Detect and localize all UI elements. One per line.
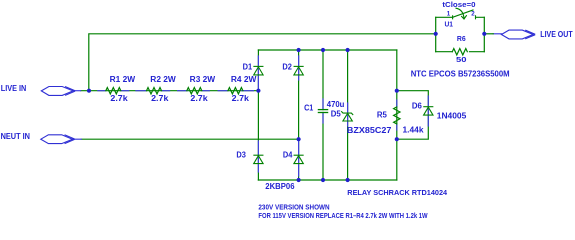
zener diode D5 [342,112,353,121]
svg-text:U1: U1 [445,19,454,28]
wire blue pin segments on live row [73,90,253,92]
junction top rail C1 [321,48,325,52]
wire C1 column [322,50,324,110]
resistor R3 [187,88,202,94]
svg-text:1: 1 [447,11,451,18]
svg-text:1.44k: 1.44k [403,126,425,135]
svg-text:NTC EPCOS B57236S500M: NTC EPCOS B57236S500M [411,70,510,79]
junction top rail D2 [297,48,301,52]
svg-text:50: 50 [456,57,467,64]
svg-text:R1 2W: R1 2W [110,75,136,84]
svg-text:470u: 470u [327,100,345,109]
switch U1 [436,8,485,19]
svg-text:C1: C1 [304,103,314,112]
wire D1/D3 column [257,50,259,180]
resistor R2 [147,88,162,94]
junction top rail D5 [346,48,350,52]
wire from loop to output connector [484,33,493,35]
wire top horizontal from live-in junction to switch loop [89,34,436,91]
svg-text:R5: R5 [377,111,388,120]
svg-text:D1: D1 [243,63,253,72]
svg-text:R4 2W: R4 2W [231,75,257,84]
resistor R1 [106,88,121,94]
junction bottom rail C1 [321,178,325,182]
svg-text:2.7k: 2.7k [190,94,208,103]
wire blue pin segments on vertical columns [258,34,501,176]
wire D2/D4 column [298,50,300,180]
resistor R4 [228,88,243,94]
junction bridge live node [256,89,260,93]
diode D4 [294,155,303,163]
svg-text:1N4005: 1N4005 [437,112,467,121]
junction bottom rail D5 [346,178,350,182]
diode D3 [254,155,263,163]
svg-text:BZX85C27: BZX85C27 [347,126,392,135]
port LIVE OUT connector [501,30,534,39]
svg-text:D6: D6 [412,101,423,110]
junction switch loop left [434,32,438,36]
diode D1 [254,66,263,75]
capacitor C1 [318,110,327,113]
wire switch/R6 loop [435,17,437,51]
port NEUT IN connector [41,135,74,144]
svg-text:230V VERSION SHOWN: 230V VERSION SHOWN [258,205,329,212]
svg-text:R6: R6 [457,36,466,43]
svg-text:D5: D5 [331,110,342,119]
svg-text:D2: D2 [282,63,292,72]
diode D2 [294,66,303,75]
svg-text:tClose=0: tClose=0 [442,2,475,9]
wire bottom rail of bridge [258,179,396,181]
svg-text:2.7k: 2.7k [110,94,128,103]
svg-text:NEUT IN: NEUT IN [1,132,31,141]
junction bottom rail D4 [297,178,301,182]
junction relay coil top [395,89,399,93]
port LIVE IN connector [41,87,74,96]
wire D6 loop [397,91,429,140]
wire live row from junction to bridge [81,90,259,92]
svg-text:R3 2W: R3 2W [190,75,216,84]
wire neutral row [81,138,298,140]
svg-text:D3: D3 [236,151,246,160]
junction relay coil bottom [395,137,399,141]
wire D5 column [347,50,349,180]
svg-text:R2 2W: R2 2W [150,75,176,84]
resistor R5 (relay coil) [394,107,400,124]
svg-text:2.7k: 2.7k [151,94,169,103]
wire relay coil column with corners [396,50,398,180]
svg-text:LIVE OUT: LIVE OUT [540,30,572,39]
svg-text:RELAY SCHRACK RTD14024: RELAY SCHRACK RTD14024 [347,188,448,197]
svg-text:2KBP06: 2KBP06 [265,182,295,191]
svg-text:2: 2 [471,11,475,18]
wire blue pin at neutral connector [73,138,82,140]
svg-text:2.7k: 2.7k [232,94,250,103]
svg-text:FOR 115V VERSION REPLACE R1–R4: FOR 115V VERSION REPLACE R1–R4 2.7k 2W W… [258,213,428,220]
resistor R6 (NTC) [452,49,467,55]
junction live-in node [87,89,91,93]
svg-text:LIVE IN: LIVE IN [1,84,27,93]
wire top rail of bridge [258,49,396,51]
diode D6 [424,107,433,115]
junction switch loop right [482,32,486,36]
svg-text:D4: D4 [283,151,293,160]
junction bridge neutral node [297,137,301,141]
